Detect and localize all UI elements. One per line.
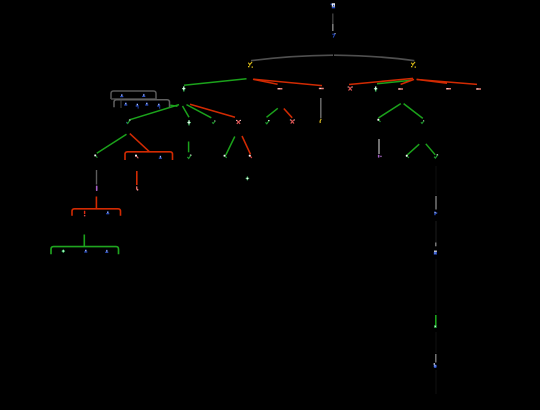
node chk1	[126, 120, 130, 124]
node 7	[332, 33, 335, 38]
edge B-minus4 red	[417, 79, 448, 83]
edge k2-bl1 dark upper	[435, 166, 437, 195]
edge bl1-bl2 bright tip gray	[435, 243, 437, 247]
node yellow comma	[320, 119, 321, 123]
record box3 red	[125, 152, 173, 160]
edge box3-v2 red	[136, 171, 138, 185]
node A yellow	[248, 62, 253, 68]
edge A-minus1 red	[253, 79, 278, 84]
edge plus1-chk3 green	[187, 105, 212, 118]
node x1 big	[348, 87, 353, 91]
node minus2	[319, 88, 324, 90]
box1 label b	[142, 94, 145, 97]
edge k1-g4 green	[407, 144, 419, 155]
node chk7	[187, 155, 191, 159]
record box2 gray	[114, 100, 170, 108]
node minus1	[277, 88, 282, 90]
node bl2 blue	[434, 251, 437, 255]
edge minus1-chk5 green	[267, 108, 278, 117]
node bl1 blue	[434, 211, 437, 215]
node x6	[290, 120, 295, 124]
edge B-plus2 green	[377, 80, 412, 84]
box4 red bang label	[84, 211, 86, 217]
box2 label 3	[145, 103, 148, 106]
edge x4-g2 red	[242, 136, 251, 154]
node gn1 green	[434, 325, 437, 328]
node v3 purple pair	[378, 155, 382, 158]
box3 pink dot label	[135, 155, 138, 159]
edge chk1-box3 red	[130, 134, 150, 152]
box1 label a	[120, 94, 123, 97]
edge B-x1 red	[349, 78, 413, 84]
node k1 check	[421, 120, 424, 123]
edge bl2-gn1 dark	[435, 259, 437, 313]
edge box4-box5 green	[83, 235, 85, 247]
node plus2 sparkle	[374, 86, 378, 91]
box2 label 1	[124, 103, 127, 106]
box5 green diamond label	[61, 249, 65, 253]
node g3 small sparkle	[246, 176, 250, 180]
node g1 white dot	[224, 155, 227, 158]
edge 7-A	[251, 55, 333, 61]
edge w1-v3 gray	[378, 139, 380, 154]
edge d1-v1 gray	[96, 170, 98, 185]
box2 label 4	[157, 104, 160, 107]
record box5 green	[51, 247, 119, 255]
edge bl1-bl2 dark	[435, 221, 437, 243]
edge 0-7	[332, 14, 334, 25]
node bl3 blue	[434, 363, 437, 368]
edge x4-g1 green	[226, 137, 235, 156]
node g2 red dot	[249, 155, 252, 158]
box4 blue label	[106, 211, 109, 214]
edge plus1-box2 green	[170, 105, 177, 106]
edge 7-B	[334, 55, 414, 61]
edge k2-bl1 gray	[435, 196, 437, 210]
node d1 white dot	[94, 155, 97, 158]
box5 blue label 2	[105, 250, 108, 253]
node g4 white dot	[406, 155, 409, 158]
edge A-minus2 red	[254, 79, 323, 85]
node x4	[236, 120, 241, 124]
box2 glyph tails	[138, 107, 139, 109]
node plus1 sparkle	[182, 86, 186, 91]
node minus4	[446, 88, 451, 90]
node spark2	[187, 120, 191, 125]
node chk5	[266, 120, 270, 124]
edge B-minus5 red	[417, 80, 477, 85]
edge minus2-yellow gray	[320, 98, 322, 118]
node v2 pink bang	[136, 186, 138, 190]
edge chk1-d1 green	[97, 134, 127, 153]
edge gn1-bl3 gray	[435, 354, 437, 363]
node minus5	[476, 88, 481, 90]
edge plus1-chk1 green	[130, 105, 180, 120]
record box4 red	[72, 209, 121, 216]
edge minus3-k1 green	[404, 104, 423, 119]
edge v1-box4 red	[95, 197, 97, 209]
edge A-plus1 green	[184, 79, 247, 86]
node v1 purple bar	[96, 186, 98, 191]
edge minus1-x6 red	[284, 109, 292, 118]
node w1 white dot	[377, 119, 380, 122]
edge B-minus3 red	[401, 79, 414, 84]
edge bl3 tail dark	[435, 370, 437, 394]
edge plus1-x4 red	[190, 104, 235, 117]
edge k1-k2 green	[426, 144, 435, 155]
node chk3 small	[212, 121, 215, 124]
edge gn1-bl3 dark upper	[435, 332, 437, 353]
record box1 gray	[111, 91, 156, 99]
edge plus1-spark2 green	[183, 106, 190, 117]
node minus3	[398, 88, 403, 90]
edge spark2-chk7 green	[188, 142, 190, 153]
box2 label 2	[136, 104, 139, 107]
edge minus3-w1 green	[378, 104, 400, 118]
node B yellow	[411, 62, 416, 68]
node k2 check	[434, 154, 438, 158]
node root 0	[331, 3, 335, 8]
box5 blue label 1	[84, 250, 87, 253]
box1 glyph descender	[120, 100, 122, 109]
edge gn1 green tip	[435, 315, 437, 326]
box3 blue label	[159, 156, 162, 159]
